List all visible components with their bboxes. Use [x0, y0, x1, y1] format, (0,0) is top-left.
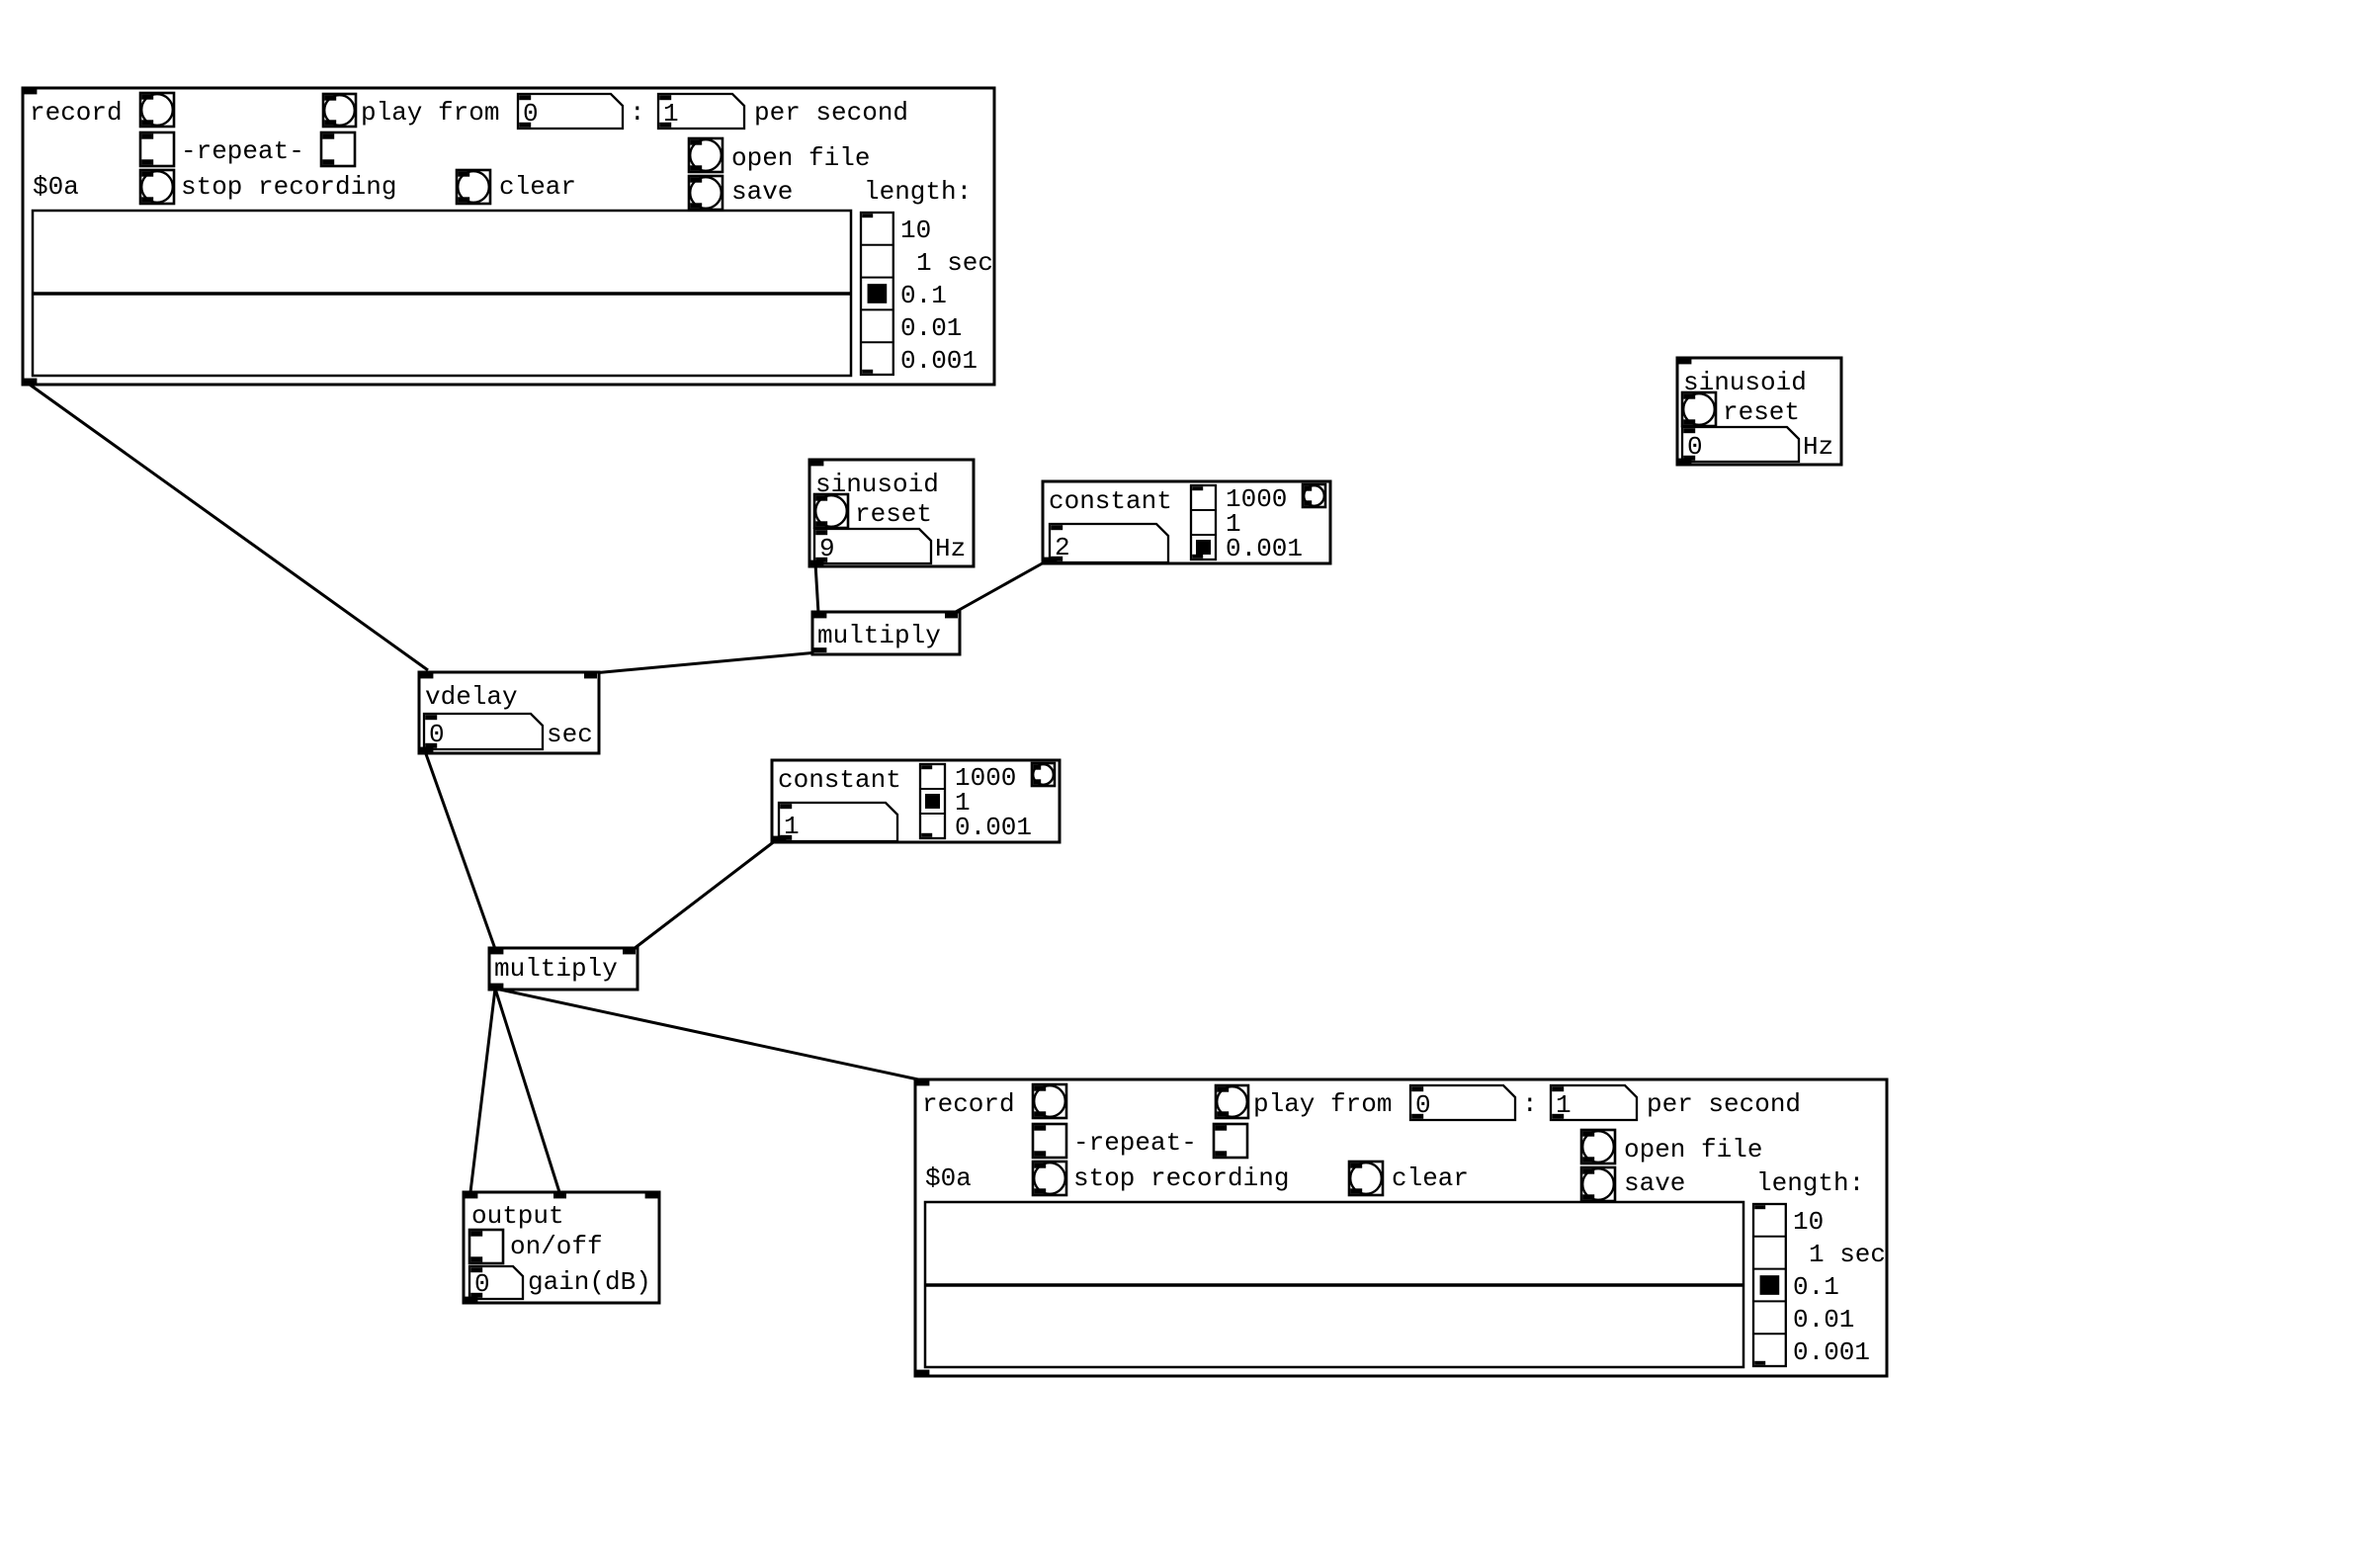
- multiply2 outlet mark: [490, 984, 503, 989]
- svg-text:save: save: [731, 177, 793, 207]
- record2 radio label 10: [1793, 1207, 1824, 1237]
- record2 label open file: [1624, 1135, 1762, 1164]
- module constant2 (constant): [772, 760, 1060, 842]
- record2 label clear: [1392, 1163, 1469, 1193]
- record1 waveform graph: [33, 211, 851, 376]
- svg-text:play from: play from: [361, 98, 499, 128]
- record1 label record: [30, 98, 123, 128]
- svg-text:per second: per second: [1647, 1089, 1801, 1119]
- record2 numbox speed 1: [1551, 1085, 1637, 1120]
- svg-text:0.01: 0.01: [1793, 1305, 1854, 1335]
- constant2 radio label 1: [955, 788, 971, 818]
- svg-text:0.1: 0.1: [1793, 1272, 1839, 1302]
- svg-text:0.001: 0.001: [1226, 534, 1303, 563]
- record2 toggle repeat right: [1214, 1124, 1247, 1158]
- record2 numbox play position 0: [1410, 1085, 1515, 1120]
- record1 label save: [731, 177, 793, 207]
- record2 label $0a: [925, 1163, 972, 1193]
- record1 label clear: [499, 172, 576, 202]
- svg-text:open file: open file: [1624, 1135, 1762, 1164]
- constant1 radio label 1: [1226, 509, 1241, 539]
- svg-text:-repeat-: -repeat-: [1073, 1128, 1197, 1158]
- module sinusoid1 (sinusoid): [1677, 358, 1841, 465]
- record1 bang stop recording: [140, 170, 174, 204]
- output label: [471, 1201, 564, 1231]
- record1 outlet mark: [24, 379, 37, 384]
- record2 label length:: [1756, 1168, 1864, 1198]
- record2 label per second: [1647, 1089, 1801, 1119]
- svg-text:1: 1: [1556, 1090, 1572, 1120]
- svg-text:record: record: [30, 98, 123, 128]
- record2 waveform graph: [925, 1202, 1743, 1367]
- svg-text:$0a: $0a: [33, 172, 79, 202]
- record2 outlet mark: [916, 1370, 929, 1375]
- svg-text:0.001: 0.001: [1793, 1337, 1870, 1367]
- wire record1 outlet to vdelay left inlet: [30, 385, 428, 670]
- sinusoid1 numbox frequency: [1682, 427, 1799, 462]
- sinusoid2 label reset: [855, 499, 932, 529]
- svg-text:0: 0: [1687, 432, 1703, 462]
- multiply2 label: [494, 954, 618, 984]
- constant1 numbox value: [1050, 524, 1168, 562]
- record1 radio label 1 sec: [916, 248, 993, 278]
- record2 label save: [1624, 1168, 1685, 1198]
- svg-text:constant: constant: [778, 765, 901, 795]
- record2 label stop recording: [1073, 1163, 1289, 1193]
- vdelay outlet mark: [420, 747, 433, 752]
- record2 radio label 0.01: [1793, 1305, 1854, 1335]
- wire vdelay outlet to multiply2 left inlet: [425, 751, 495, 949]
- wire constant1 outlet to multiply1 right inlet: [954, 561, 1046, 613]
- constant2 numbox value: [779, 803, 897, 841]
- svg-text:reset: reset: [855, 499, 932, 529]
- sinusoid2 numbox frequency: [814, 529, 931, 563]
- record1 length radio: [861, 213, 893, 375]
- record1 numbox play position 0: [518, 94, 623, 129]
- record2 label play from: [1253, 1089, 1392, 1119]
- svg-text:1: 1: [663, 99, 679, 129]
- svg-text:vdelay: vdelay: [425, 682, 518, 712]
- svg-text:Hz: Hz: [1803, 432, 1833, 462]
- wire multiply2 outlet to output left inlet: [470, 989, 495, 1192]
- output right inlet mark: [645, 1193, 658, 1198]
- vdelay label sec: [547, 720, 593, 749]
- constant1 label constant: [1049, 486, 1172, 516]
- svg-text:length:: length:: [1756, 1168, 1864, 1198]
- svg-text:2: 2: [1055, 533, 1070, 562]
- constant2 radio label 1000: [955, 763, 1016, 793]
- record1 bang clear: [457, 170, 490, 204]
- record1 toggle repeat right: [321, 132, 355, 166]
- constant1 radio label 1000: [1226, 484, 1287, 514]
- svg-text:stop recording: stop recording: [1073, 1163, 1289, 1193]
- svg-text:per second: per second: [754, 98, 908, 128]
- svg-text:reset: reset: [1723, 397, 1800, 427]
- vdelay label: [425, 682, 518, 712]
- svg-text::: :: [630, 98, 645, 128]
- vdelay left inlet mark: [420, 673, 433, 678]
- sinusoid2 outlet mark: [810, 560, 823, 565]
- svg-text:1 sec: 1 sec: [1809, 1240, 1886, 1269]
- multiply2 left inlet mark: [490, 949, 503, 954]
- record2 toggle repeat left: [1033, 1124, 1066, 1158]
- record1 radio label 0.1: [900, 281, 947, 310]
- record2 bang save: [1581, 1167, 1615, 1201]
- svg-text:gain(dB): gain(dB): [528, 1267, 651, 1297]
- svg-text:sec: sec: [547, 720, 593, 749]
- module multiply2: [489, 948, 637, 990]
- svg-text:0.001: 0.001: [900, 346, 977, 376]
- record1 radio label 10: [900, 215, 931, 245]
- record1 label open file: [731, 143, 870, 173]
- record1 bang record: [140, 93, 174, 127]
- svg-text::: :: [1522, 1089, 1538, 1119]
- record1 label colon: [630, 98, 645, 128]
- svg-text:0.1: 0.1: [900, 281, 947, 310]
- record1 bang save: [689, 176, 722, 210]
- svg-text:length:: length:: [864, 177, 972, 207]
- vdelay numbox delay time: [424, 714, 543, 749]
- svg-text:play from: play from: [1253, 1089, 1392, 1119]
- sinusoid1 label reset: [1723, 397, 1800, 427]
- constant2 bang send: [1032, 763, 1055, 786]
- svg-text:record: record: [922, 1089, 1015, 1119]
- constant2 label constant: [778, 765, 901, 795]
- record1 radio label 0.01: [900, 313, 962, 343]
- svg-text:0: 0: [429, 720, 445, 749]
- output label on/off: [510, 1232, 603, 1261]
- output toggle on/off: [469, 1230, 503, 1263]
- vdelay right inlet mark: [584, 673, 597, 678]
- constant1 bang send: [1303, 484, 1325, 507]
- output left inlet mark: [465, 1193, 477, 1198]
- record1 radio label 0.001: [900, 346, 977, 376]
- svg-text:-repeat-: -repeat-: [181, 136, 304, 166]
- output middle inlet mark: [553, 1193, 566, 1198]
- record1 bang play: [323, 94, 356, 127]
- output outlet mark: [465, 1297, 477, 1302]
- svg-text:stop recording: stop recording: [181, 172, 396, 202]
- sinusoid2 label sinusoid: [815, 470, 939, 499]
- record2 bang play: [1216, 1085, 1248, 1118]
- svg-text:clear: clear: [499, 172, 576, 202]
- svg-text:$0a: $0a: [925, 1163, 972, 1193]
- wire multiply1 outlet to vdelay right inlet: [593, 652, 817, 673]
- record1 numbox speed 1: [658, 94, 744, 129]
- wire sinusoid2 outlet to multiply1 left inlet: [815, 563, 818, 613]
- record2 radio label 1 sec: [1809, 1240, 1886, 1269]
- module sinusoid2 (sinusoid): [809, 460, 974, 566]
- sinusoid2 bang reset: [814, 494, 848, 528]
- sinusoid1 label sinusoid: [1683, 368, 1807, 397]
- sinusoid2 label Hz: [935, 534, 966, 563]
- module record2 (record canvas): [915, 1079, 1887, 1376]
- record1 bang open file: [689, 138, 722, 172]
- svg-text:9: 9: [819, 534, 835, 563]
- record2 radio label 0.1: [1793, 1272, 1839, 1302]
- record2 label -repeat-: [1073, 1128, 1197, 1158]
- svg-text:multiply: multiply: [817, 621, 941, 650]
- svg-text:10: 10: [1793, 1207, 1824, 1237]
- record2 bang record: [1033, 1084, 1066, 1118]
- svg-text:multiply: multiply: [494, 954, 618, 984]
- multiply1 left inlet mark: [813, 613, 826, 618]
- record2 label colon: [1522, 1089, 1538, 1119]
- constant1 outlet mark: [1044, 558, 1057, 562]
- record2 bang open file: [1581, 1130, 1615, 1163]
- record2 bang stop recording: [1033, 1162, 1066, 1195]
- sinusoid1 outlet mark: [1678, 459, 1691, 464]
- constant2 outlet mark: [773, 836, 786, 841]
- record1 label stop recording: [181, 172, 396, 202]
- svg-text:Hz: Hz: [935, 534, 966, 563]
- constant2 scale radio: [920, 764, 945, 838]
- record1 label -repeat-: [181, 136, 304, 166]
- svg-text:1: 1: [784, 812, 800, 841]
- svg-text:on/off: on/off: [510, 1232, 603, 1261]
- wire constant2 outlet to multiply2 right inlet: [634, 840, 776, 949]
- record2 bang clear: [1349, 1162, 1383, 1195]
- output numbox gain: [469, 1266, 523, 1299]
- wire multiply2 outlet to record2 inlet: [495, 989, 918, 1079]
- multiply1 label: [817, 621, 941, 650]
- module output: [464, 1192, 659, 1303]
- svg-text:0: 0: [474, 1269, 490, 1299]
- record1 label play from: [361, 98, 499, 128]
- svg-text:save: save: [1624, 1168, 1685, 1198]
- record1 label length:: [864, 177, 972, 207]
- multiply1 right inlet mark: [945, 613, 958, 618]
- module vdelay: [419, 672, 599, 753]
- svg-text:10: 10: [900, 215, 931, 245]
- sinusoid2 inlet mark: [810, 461, 823, 466]
- svg-text:open file: open file: [731, 143, 870, 173]
- record2 radio label 0.001: [1793, 1337, 1870, 1367]
- svg-text:1 sec: 1 sec: [916, 248, 993, 278]
- constant2 radio label 0.001: [955, 813, 1032, 842]
- svg-text:0: 0: [523, 99, 539, 129]
- svg-text:output: output: [471, 1201, 564, 1231]
- record2 inlet mark: [916, 1080, 929, 1085]
- multiply2 right inlet mark: [623, 949, 636, 954]
- output label gain(dB): [528, 1267, 651, 1297]
- sinusoid1 label Hz: [1803, 432, 1833, 462]
- record1 toggle repeat left: [140, 132, 174, 166]
- record2 label record: [922, 1089, 1015, 1119]
- svg-text:0: 0: [1415, 1090, 1431, 1120]
- sinusoid1 inlet mark: [1678, 359, 1691, 364]
- module constant1 (constant): [1043, 481, 1330, 563]
- multiply1 outlet mark: [813, 647, 826, 652]
- constant1 radio label 0.001: [1226, 534, 1303, 563]
- constant1 scale radio: [1191, 485, 1216, 560]
- svg-text:constant: constant: [1049, 486, 1172, 516]
- sinusoid1 bang reset: [1682, 392, 1716, 426]
- record1 label per second: [754, 98, 908, 128]
- record2 length radio: [1753, 1204, 1786, 1366]
- wire multiply2 outlet to output middle inlet: [495, 989, 559, 1192]
- svg-text:clear: clear: [1392, 1163, 1469, 1193]
- record1 label $0a: [33, 172, 79, 202]
- module multiply1: [812, 612, 960, 654]
- module record1 (record canvas): [23, 88, 994, 385]
- svg-text:0.01: 0.01: [900, 313, 962, 343]
- record1 inlet mark: [24, 89, 37, 94]
- svg-text:0.001: 0.001: [955, 813, 1032, 842]
